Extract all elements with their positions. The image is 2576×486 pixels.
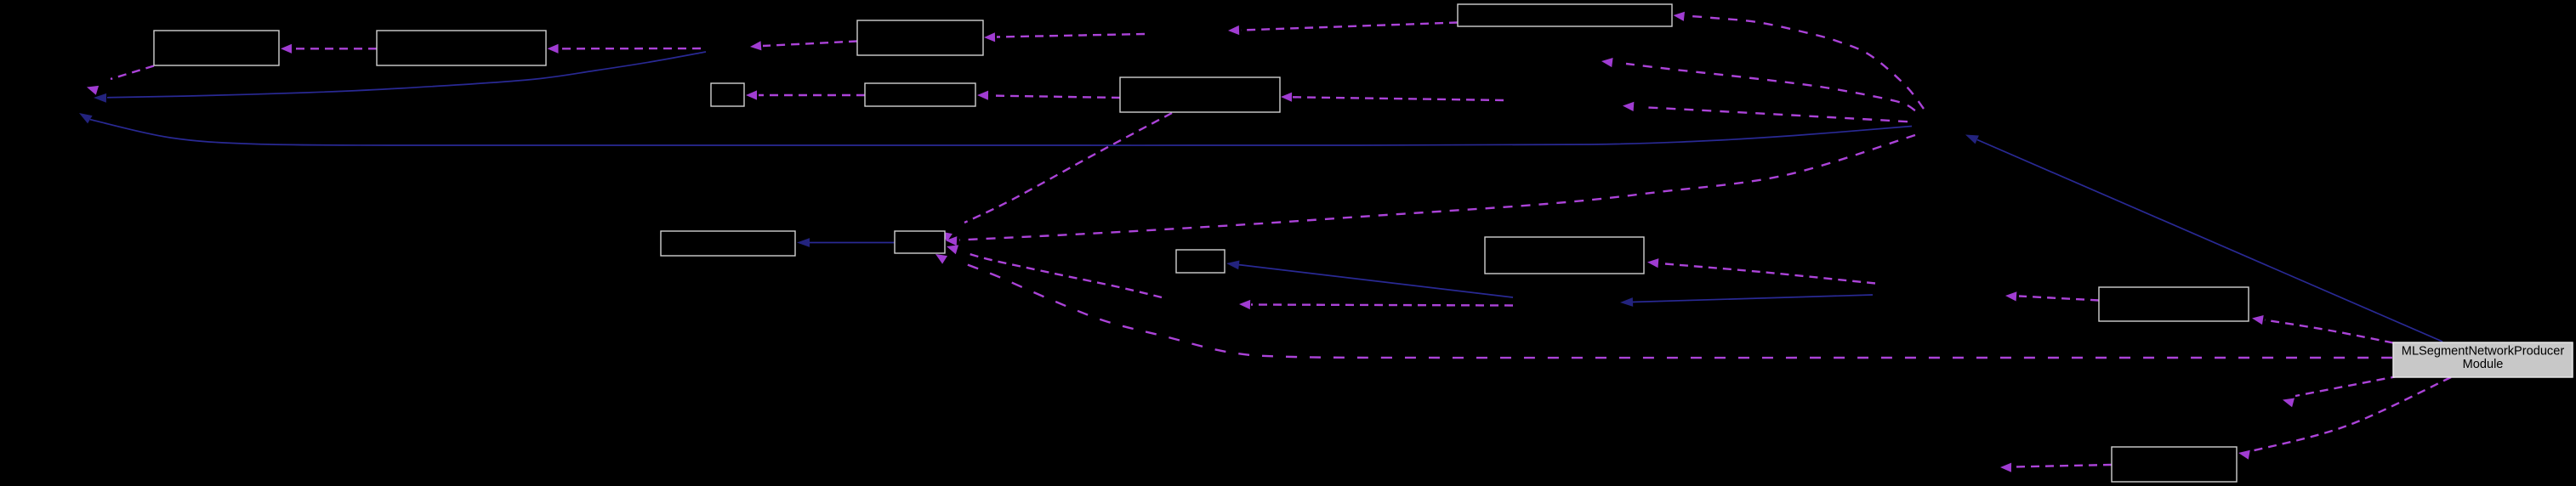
edge hub to I — [1674, 12, 1925, 109]
node MLSegmentNetworkProducerModule (current module, gray) — [2393, 342, 2573, 377]
edge E to D — [746, 90, 865, 99]
node K (empty box) — [1485, 237, 1644, 274]
node L (empty box) — [2099, 287, 2249, 321]
edge H to G (blue) — [797, 238, 895, 247]
node H (empty box) — [895, 231, 945, 253]
node E (empty box) — [865, 83, 975, 106]
edge hidden-V7 to blue-tip (blue) — [1620, 295, 1873, 307]
edge hidden-V4 to C — [984, 32, 1145, 42]
edge module to H bottom — [935, 254, 2392, 358]
svg-text:Module: Module — [2463, 358, 2504, 371]
node J (empty box) — [1176, 250, 1225, 273]
edge F to E — [977, 91, 1120, 100]
edge B to A — [281, 44, 377, 54]
node D (empty box) — [711, 83, 744, 106]
edge L to hidden-V7 — [2005, 291, 2099, 301]
edge C to hidden-V2 — [750, 41, 857, 50]
edge hub to hidden-V1 (blue) — [79, 113, 1912, 145]
edge hidden-V12 to F — [1281, 93, 1504, 102]
node B (empty box) — [377, 31, 546, 65]
edge F bottom to H — [941, 113, 1172, 241]
edge module to N — [2238, 377, 2451, 460]
edge hidden-V9 to J (blue) — [1226, 261, 1513, 298]
edge A to hidden-V1 — [87, 66, 154, 95]
node F (empty box) — [1120, 77, 1280, 112]
edge hidden-V7 to K — [1647, 258, 1875, 283]
node A (empty box) — [154, 31, 279, 65]
edge hub to hidden-V5 — [1601, 58, 1915, 110]
node C (empty box) — [857, 20, 983, 55]
node N (empty box) — [2112, 447, 2237, 482]
node G (empty box) — [661, 231, 795, 256]
edge module to hidden-V10 — [2283, 376, 2399, 408]
edge hub to H right — [946, 135, 1915, 246]
node I (empty box) — [1458, 4, 1672, 26]
edge hidden-V2 to B — [548, 44, 702, 54]
svg-text:MLSegmentNetworkProducer: MLSegmentNetworkProducer — [2402, 345, 2565, 359]
edge hub to hidden-V6 — [1623, 102, 1908, 121]
edge N to hidden-V11 — [2000, 463, 2112, 472]
edge hidden-V2 to hidden-V1 (blue) — [94, 52, 706, 103]
edge I to hidden-V4 — [1228, 23, 1458, 36]
edge hidden-V8 to H — [947, 245, 1162, 297]
edge module to L — [2252, 315, 2393, 343]
edge module to hub (blue) — [1965, 135, 2442, 342]
edge hidden-V9 to hidden-V8 — [1239, 300, 1513, 309]
